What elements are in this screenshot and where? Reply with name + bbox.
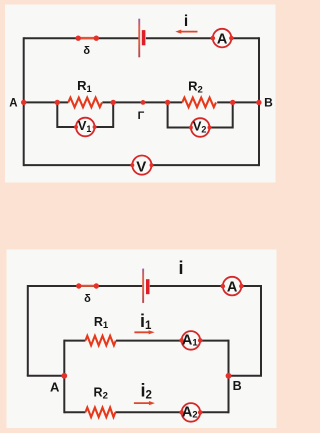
svg-text:A: A (50, 379, 60, 394)
resistor R2 zigzag (85, 408, 115, 418)
ammeter U1 connection dots (211, 36, 216, 41)
ammeter U2 connection dots (221, 284, 226, 289)
current arrow i2 (pointing right) (134, 402, 151, 404)
wire: stub to node B (229, 375, 263, 377)
ammeter U1 circle (213, 29, 232, 48)
svg-text:i: i (184, 13, 188, 30)
wire: right riser between branches (228, 340, 230, 414)
wire: branch 2 left segment (64, 411, 85, 413)
ammeter A2 connection dots (179, 410, 184, 415)
svg-text:A: A (217, 31, 228, 47)
svg-text:A: A (9, 97, 17, 109)
wire: left vertical (23, 37, 25, 166)
wire: V1 loop (57, 102, 113, 127)
wire: left riser between branches (63, 340, 65, 414)
V1 junction dot left (55, 100, 60, 105)
panel circuit 2 (7, 250, 277, 429)
resistor R1 zigzag (85, 336, 115, 346)
node B dot (256, 100, 261, 105)
wire: top rail right of battery (146, 37, 259, 39)
svg-text:A: A (227, 279, 238, 295)
current arrow i1 (pointing right) (134, 331, 150, 333)
svg-text:B: B (264, 96, 273, 110)
voltmeter V circle (132, 156, 151, 175)
wire: stub to node A (27, 375, 65, 377)
V2 junction dot left (165, 100, 170, 105)
svg-text:Γ: Γ (138, 110, 145, 122)
voltmeter V2 connection dots (189, 126, 193, 130)
svg-text:δ: δ (84, 293, 91, 305)
wire: top rail right of battery (150, 285, 261, 287)
ammeter A2 circle (182, 403, 201, 422)
switch delta dots (76, 283, 81, 288)
wire: top rail left of battery (28, 285, 143, 287)
V1 junction dot right (111, 100, 116, 105)
wire: right vertical (258, 37, 260, 166)
battery long plate (142, 269, 144, 303)
svg-text:B: B (233, 379, 242, 393)
switch delta blade (78, 37, 96, 39)
svg-text:V: V (136, 158, 146, 175)
voltmeter V connection dots (130, 163, 134, 167)
voltmeter V2 circle (191, 118, 210, 137)
battery long plate (138, 19, 140, 58)
svg-text:i: i (178, 258, 183, 278)
battery short plate (142, 30, 146, 45)
ammeter U2 circle (223, 277, 242, 296)
voltmeter V1 connection dots (74, 125, 78, 129)
node A dot (61, 373, 67, 379)
wire: bottom rail (24, 164, 259, 166)
ammeter A1 connection dots (179, 338, 184, 343)
wire: top rail left of battery (24, 37, 139, 39)
wire: middle rail R1 to R2 (102, 101, 182, 103)
ammeter A1 circle (182, 331, 201, 350)
svg-text:δ: δ (83, 45, 90, 57)
wire: branch 2 right segment (115, 411, 228, 413)
wire: V2 loop (168, 102, 233, 127)
node B dot (226, 373, 232, 379)
V2 junction dot right (230, 100, 235, 105)
battery short plate (146, 279, 150, 294)
wire: middle rail A to R1 (24, 101, 68, 103)
wire: outer left vertical (27, 285, 29, 376)
resistor R2 zigzag (182, 98, 216, 108)
switch delta dots (76, 36, 81, 41)
wire: outer right vertical (260, 285, 262, 376)
voltmeter V1 circle (76, 118, 95, 137)
node A dot (21, 100, 26, 105)
resistor R1 zigzag (68, 98, 102, 108)
panel circuit 1 (5, 5, 276, 183)
wire: branch 1 left segment (64, 340, 85, 342)
current arrow (pointing left) (180, 31, 198, 33)
wire: middle rail R2 to B (217, 101, 259, 103)
node Gamma dot (141, 100, 146, 105)
switch delta blade (79, 285, 97, 287)
wire: branch 1 right segment (116, 340, 229, 342)
